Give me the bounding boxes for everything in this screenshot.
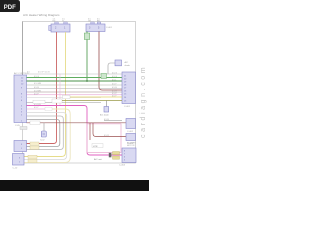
component R1 (small top-right device): [108, 63, 115, 74]
svg-text:C-402: C-402: [127, 131, 134, 133]
svg-text:0.5 G: 0.5 G: [112, 76, 117, 78]
pink component box: [87, 124, 121, 153]
svg-text:0.5 B: 0.5 B: [34, 87, 39, 89]
svg-text:diode: diode: [125, 65, 131, 67]
wire row: green r2: [27, 77, 123, 79]
wire: green from C2 pin3 down to component box: [86, 32, 88, 82]
wire: left border drop into connector L1: [22, 22, 24, 76]
connector R3: [126, 119, 136, 129]
wire row: green r3: [27, 80, 123, 82]
svg-text:C-404: C-404: [119, 165, 126, 167]
connector B (bottom-left lower): [13, 154, 25, 166]
wire row: cream with corner down to connector B: [27, 108, 49, 110]
yellow label tags left of R5: [113, 152, 120, 155]
svg-text:0.5 G: 0.5 G: [112, 72, 117, 74]
svg-text:MOTOR: MOTOR: [127, 145, 135, 147]
connector A wire labels: [30, 142, 39, 145]
svg-text:PDF: PDF: [4, 5, 16, 11]
svg-text:0.5 P: 0.5 P: [34, 93, 39, 95]
PDF badge: [0, 0, 20, 12]
svg-text:0.5 Y: 0.5 Y: [34, 107, 39, 109]
svg-text:0.5 G: 0.5 G: [34, 76, 39, 78]
splice S1: [41, 131, 46, 137]
svg-text:cardiagn.com: cardiagn.com: [140, 65, 147, 138]
svg-text:A/C: A/C: [125, 61, 129, 64]
wire row: maroon bottom row to R3: [27, 122, 127, 124]
wire: drop to ground splice: [43, 123, 45, 131]
wire row: bright pink with corner down to connector R5: [27, 106, 123, 156]
wire: yellow from C1 pin1 down to connector B: [24, 32, 66, 157]
svg-text:C-401: C-401: [124, 106, 131, 108]
svg-text:0.5 R/B: 0.5 R/B: [34, 91, 41, 93]
page frame: [23, 22, 136, 164]
dark icon left of R5: [109, 153, 112, 158]
bottom black bar: [0, 180, 149, 191]
connector R2 (right tall block): [122, 72, 136, 104]
connector A (bottom-left upper): [14, 141, 27, 152]
wire row: gray labeled r9: [27, 102, 102, 104]
connector R4: [126, 134, 136, 141]
wire row: gray r1: [27, 73, 123, 75]
wire row: faint gray r8: [27, 97, 102, 99]
wire row: gray r5: [27, 88, 123, 90]
svg-text:C-05: C-05: [15, 125, 21, 127]
wire rows into R2: yellow + olive: [70, 96, 122, 98]
wire: maroon from C2 pin5 down, corner right into block R2: [99, 32, 122, 91]
svg-text:C-401: C-401: [106, 27, 113, 29]
svg-text:0.5 R: 0.5 R: [112, 90, 117, 92]
wire label inside pink box: [92, 144, 103, 148]
diode D1 hanging from olive row: [105, 101, 107, 107]
wire row: gray2 with corner down to connector A: [27, 120, 60, 147]
svg-text:HTR: HTR: [93, 146, 98, 148]
wire gauge labels middle: [27, 72, 117, 137]
svg-text:0.5 B: 0.5 B: [112, 87, 117, 89]
connector B wire labels: [28, 155, 37, 158]
wire row: light gray with corner down to connector B: [24, 113, 67, 160]
wire: maroon pair into pink box: [104, 120, 122, 122]
green junction dot: [86, 80, 88, 82]
wire row: gray r4: [27, 84, 123, 86]
wire: pink vertical jumper: [59, 74, 61, 106]
svg-text:0.5 G/B: 0.5 G/B: [34, 83, 41, 85]
connector C2 (top-right) body: [86, 24, 105, 32]
svg-text:0.5 Y: 0.5 Y: [112, 83, 117, 85]
wire: red from C1 pin2 down to connector A: [27, 32, 57, 144]
svg-text:0.5 P/B: 0.5 P/B: [34, 104, 41, 106]
svg-text:A/C Heater Wiring Diagram: A/C Heater Wiring Diagram: [23, 13, 60, 17]
label box on red wire: [52, 99, 62, 103]
page background: [0, 0, 149, 198]
wire row: pale pink r7: [27, 94, 123, 96]
svg-text:C-10: C-10: [13, 168, 19, 170]
green junction tag: [101, 74, 107, 79]
svg-text:A/C diode: A/C diode: [100, 114, 110, 117]
label tag on green wire: [84, 33, 89, 40]
svg-text:0.5 G ▪ 0.5 G: 0.5 G ▪ 0.5 G: [38, 72, 50, 74]
connector C1 (top-left) body: [51, 24, 70, 32]
svg-text:A/C unit: A/C unit: [94, 158, 102, 161]
wire row: gray r6: [27, 91, 123, 93]
wire row: gray with corner down to connector A: [27, 116, 64, 150]
